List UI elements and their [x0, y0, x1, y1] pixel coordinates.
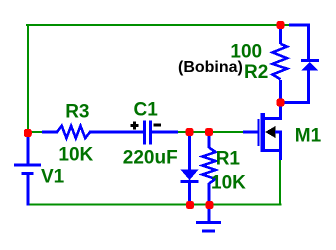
- resistor R1: [203, 132, 216, 205]
- wire stub top dot to D2: [281, 24, 291, 26]
- resistor R3: [42, 126, 144, 138]
- svg-text:220uF: 220uF: [123, 148, 178, 169]
- node junction dot top right: [277, 21, 285, 29]
- wire stub bottom loop dot to D2: [281, 102, 291, 104]
- svg-text:10K: 10K: [211, 172, 246, 193]
- diode D1: [181, 132, 199, 205]
- node junction dot bottom1: [186, 201, 194, 209]
- node junction dot mid2: [205, 128, 213, 136]
- diode D2: [284, 25, 319, 103]
- svg-text:C1: C1: [134, 100, 159, 121]
- wire bottom rail: [27, 204, 282, 206]
- battery V1: [14, 131, 41, 206]
- svg-text:R1: R1: [216, 149, 241, 170]
- node junction dot mid1: [186, 128, 194, 136]
- node junction dot left: [24, 129, 32, 137]
- capacitor C1: [145, 121, 179, 145]
- transistor M1 (MOSFET): [243, 103, 282, 160]
- label C1 polarity minus: [154, 124, 162, 127]
- svg-text:V1: V1: [41, 166, 65, 187]
- node junction dot loop bottom: [277, 99, 285, 107]
- wire node A stub (left dot to R3): [28, 131, 44, 133]
- svg-text:R2: R2: [244, 62, 268, 83]
- ground: [196, 205, 221, 231]
- svg-text:(Bobina): (Bobina): [178, 59, 243, 76]
- node junction dot bottom2: [206, 201, 214, 209]
- svg-text:R3: R3: [65, 102, 89, 123]
- wire mid net (C1 to gate through dots): [176, 131, 244, 133]
- svg-text:10K: 10K: [58, 145, 93, 166]
- resistor R2: [273, 25, 288, 103]
- label C1 polarity plus: [131, 122, 139, 130]
- wire top rail: [26, 24, 281, 26]
- svg-text:M1: M1: [295, 125, 322, 146]
- wire right lower (source to bottom rail): [279, 158, 281, 206]
- wire left rail: [27, 24, 29, 133]
